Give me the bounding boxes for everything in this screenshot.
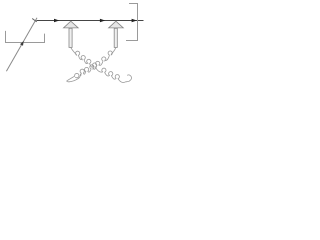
gray up-arrow 1 head bbox=[64, 21, 79, 28]
wire arrowhead 2 bbox=[100, 19, 105, 22]
coil B (right helix, runs down-left) bbox=[67, 48, 116, 82]
diagonal arrow shaft bbox=[6, 18, 37, 72]
X junction mark at wire start bbox=[32, 19, 37, 22]
electrode bracket (left U-shaped plate) bbox=[6, 31, 45, 43]
gray up-arrow 1 stem bbox=[69, 28, 72, 47]
right bracket plate bbox=[126, 4, 138, 41]
gray up-arrow 2 stem bbox=[114, 28, 117, 47]
main horizontal wire bbox=[36, 20, 143, 22]
wire arrowhead 3 (at right bracket) bbox=[132, 19, 137, 22]
coil A (left helix, runs down-right) bbox=[71, 47, 132, 82]
arrowhead on diagonal arrow bbox=[20, 41, 24, 46]
gray up-arrow 2 head bbox=[109, 21, 124, 28]
wire arrowhead 1 bbox=[54, 19, 59, 22]
